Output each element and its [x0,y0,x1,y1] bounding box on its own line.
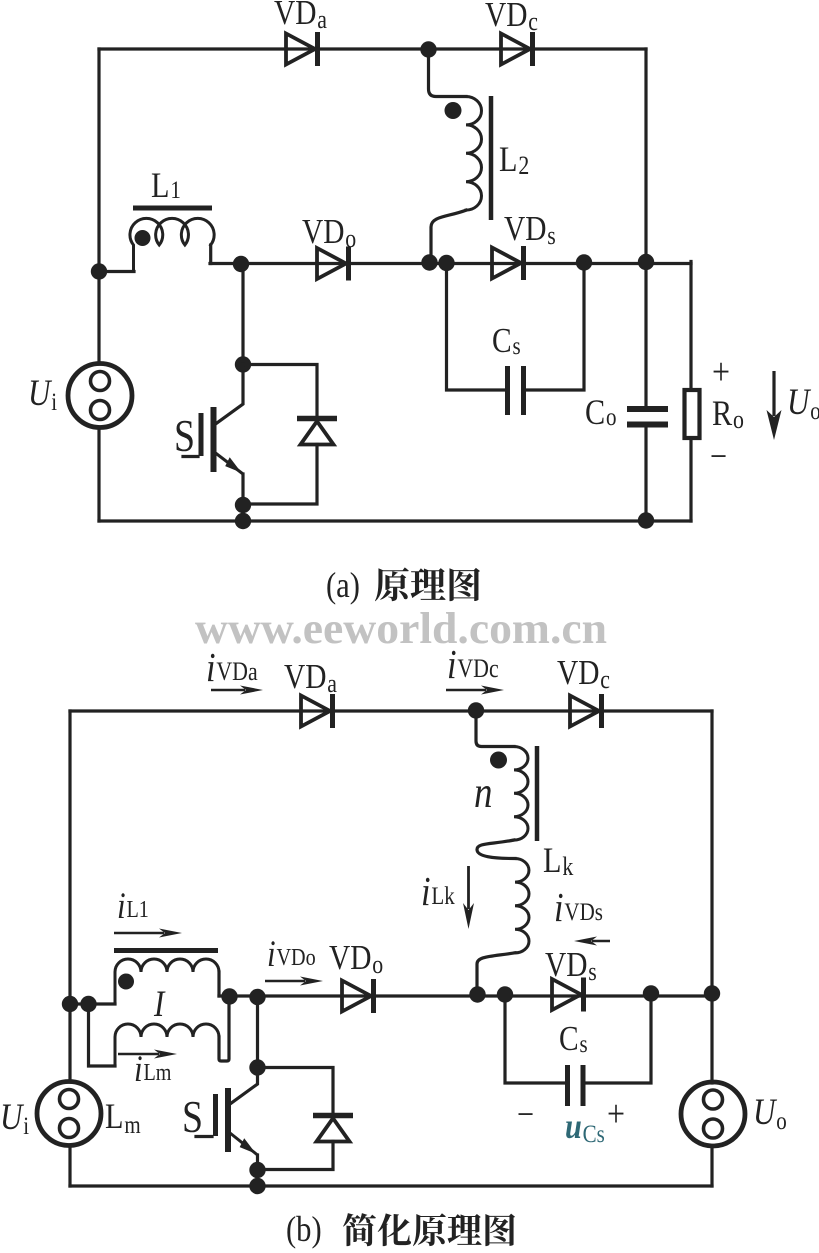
label iVDs [554,885,603,930]
arrow iVDs leftward [574,937,610,946]
node: dot middle rail L2 tap [421,254,437,270]
winding polarity dot of L1 [135,230,151,246]
wire: circuit (a) middle rail [210,262,691,265]
wire: antiparallel diode branch top (a) [243,365,317,417]
label Ro [712,394,744,435]
arrow iVDa [211,686,263,695]
label Ui (b) [0,1098,29,1140]
node: dot switch branch tap (b) [249,989,265,1005]
label VDo (b) [329,938,383,980]
svg-text:+: + [607,1092,625,1134]
label VDa [274,0,327,34]
wire: Lm lower right drop jog [219,997,229,1062]
label Cs [492,321,521,360]
label iLk [421,869,455,914]
wire: circuit (a) left rail upper [97,49,100,364]
label + of uCs [607,1092,625,1134]
wire: circuit (a) bottom rail [99,519,691,522]
diode VDs [492,246,524,280]
label S (b) [182,1092,203,1142]
svg-text:Cs: Cs [492,321,521,360]
svg-text:iVDs: iVDs [554,885,603,930]
wire: circuit (b) left rail lower [68,1145,71,1186]
capacitor Cs plates [508,366,524,415]
wire: antiparallel diode branch bottom (b) [258,1142,334,1170]
svg-text:VDa: VDa [274,0,327,34]
wire: circuit (b) left rail upper [68,711,71,1082]
wire: switch collector lead (b) [256,997,259,1067]
inductor Lm lower winding [115,1024,219,1066]
wire: L1 left connection jog [99,270,134,273]
label Cs (b) [559,1019,588,1058]
wire: circuit (a) right rail lower [644,427,647,521]
node: dot diode branch tap (a) [235,356,251,372]
winding polarity dot of Lm upper [118,974,134,990]
node: dot left rail mid (b) [62,996,78,1012]
svg-text:S: S [174,411,195,461]
transistor S gate bar (a) [199,413,204,456]
wire: emitter lead (a) [241,474,244,505]
svg-text:Uo: Uo [787,383,819,425]
winding polarity dot of L2 [445,102,462,119]
diode antiparallel of S (a) [297,419,337,445]
caption (b) chinese 简化原理图 [343,1213,515,1246]
label uCs teal [565,1107,605,1148]
inductor L1 winding [130,218,214,271]
svg-text:(b): (b) [286,1210,322,1250]
svg-text:VDo: VDo [302,212,356,254]
transistor S emitter with arrow (a) [216,453,244,474]
core bar of L2 [489,96,494,220]
svg-text:Co: Co [585,393,617,433]
svg-text:VDa: VDa [284,657,337,699]
wire: circuit (a) right rail upper [644,49,647,406]
label Uo (b) [753,1093,787,1135]
node: dot bottom rail right (a) [638,512,654,528]
inductor L2 winding [466,97,482,211]
node: dot L1 right junction [233,256,249,272]
inductor n winding (b) [514,747,528,841]
label S (a) [174,411,195,461]
label VDo [302,212,356,254]
label Ui (a) [28,374,57,416]
wire: Lm upper right drop [217,972,220,996]
label I turns [153,985,166,1025]
svg-text:Lm: Lm [105,1097,141,1139]
core overline of L1 [133,206,212,211]
label Co [585,393,617,433]
capacitor Cs plates (b) [568,1065,584,1106]
voltage source Uo (b) [681,1082,745,1146]
resistor Ro [685,390,700,438]
arrow iLm [118,1050,177,1059]
arrow iVDo [265,977,323,986]
wire: Lk bottom connection [477,953,515,994]
node: dot middle rail right rail junction [638,254,654,270]
node: dot Cs left tap (b) [497,986,513,1002]
svg-text:VDs: VDs [504,209,556,251]
arrow iLk downward [463,866,474,929]
wire: circuit (a) left rail lower [97,427,100,521]
wire: circuit (b) right rail lower [710,1146,713,1186]
label VDa (b) [284,657,337,699]
node: dot left rail mid (a) [91,263,107,279]
svg-text:L2: L2 [499,140,529,181]
node: dot Lm top right end [221,988,237,1004]
label L2 [499,140,529,181]
inductor Lk winding (b) [515,859,529,953]
svg-text:VDo: VDo [329,938,383,980]
wire: Cs loop bottom+right [526,263,584,390]
label iVDo [267,935,316,975]
node: dot Lk bottom junction [469,986,485,1002]
diode VDc [501,32,533,66]
svg-text:Ui: Ui [0,1098,29,1140]
label iL1 [117,887,149,927]
svg-text:Lk: Lk [543,841,573,882]
winding polarity dot of n [490,752,507,769]
node: dot top rail tap for n (b) [468,702,484,718]
svg-text:iVDo: iVDo [267,935,316,975]
wire: Lm lower winding left connection [89,1004,116,1066]
label iVDa [206,645,258,690]
svg-text:uCs: uCs [565,1107,605,1148]
node: dot emitter junction (a) [235,497,251,513]
core bar of transformer (b) [535,746,540,841]
diode VDo [317,247,349,281]
svg-text:−: − [517,1095,534,1135]
core overline of Lm [114,948,218,953]
svg-text:www.eeworld.com.cn: www.eeworld.com.cn [195,604,607,653]
node: dot emitter junction (b) [249,1162,265,1178]
arrow iVDc [446,686,504,695]
wire: Cs loop left+bottom [447,263,506,390]
wire: L1 right drop [209,245,212,264]
svg-text:n: n [474,768,492,817]
wire: collector lead lower (b) [230,1068,258,1105]
svg-text:S: S [182,1092,203,1142]
wire: Ro bottom lead [689,440,692,521]
node: dot middle rail right junction (b) [704,985,720,1001]
svg-text:−: − [710,437,727,477]
svg-text:Cs: Cs [559,1019,588,1058]
node: dot Cs right tap (b) [643,985,659,1001]
node: dot diode branch tap (b) [249,1059,265,1075]
wire: circuit (b) middle rail [219,994,712,997]
svg-text:iLk: iLk [421,869,455,914]
svg-text:(a): (a) [326,566,360,606]
wire: antiparallel diode branch top (b) [258,1068,334,1114]
label VDc [485,0,538,36]
svg-text:+: + [712,350,730,392]
node: dot bottom rail below switch (b) [249,1178,265,1194]
svg-text:I: I [153,985,166,1025]
node: junction dot top rail tap for L2 [420,41,436,57]
wire: circuit (b) middle rail left segment [70,1002,115,1005]
wire: circuit (a) middle rail to Ro corner [689,262,692,389]
node: dot bottom rail below switch (a) [235,513,251,529]
voltage source Ui (b) [37,1082,101,1146]
label L1 [151,166,181,206]
watermark www.eeworld.com.cn [195,604,607,653]
label − (a) [710,437,727,477]
arrow Uo output voltage (a) [767,371,782,440]
wire: Cs (b) left leg [505,995,564,1084]
wire: gate lead (b) [196,1135,212,1138]
wire: switch collector lead from middle rail [241,264,244,365]
wire: jog between n and Lk [477,840,515,859]
label iVDc [447,642,499,687]
label iLm [134,1050,171,1090]
svg-text:VDc: VDc [485,0,538,36]
diode VDa (b) [301,694,333,728]
svg-text:Uo: Uo [753,1093,787,1135]
label VDs (b) [545,945,597,987]
caption (a) latin part [326,566,360,606]
svg-text:Ro: Ro [712,394,744,435]
wire: circuit (a) top rail [99,47,646,50]
wire: circuit (b) bottom rail [70,1184,712,1187]
node: dot Lm lower winding tap [80,996,96,1012]
caption (a) chinese 原理图 [375,567,480,601]
wire: L2 bottom connection [431,210,466,262]
label VDc (b) [557,653,610,695]
transistor S (IGBT) main bar (b) [225,1088,231,1152]
diode antiparallel of S (b) [313,1116,353,1142]
transistor S gate bar (b) [213,1094,218,1136]
arrow iL1 [114,929,182,938]
svg-text:L1: L1 [151,166,181,206]
wire: gate lead (a) [183,455,198,458]
label Lm [105,1097,141,1139]
node: dot middle rail Cs left tap [438,255,454,271]
wire: Cs (b) right leg [586,995,651,1084]
svg-text:Ui: Ui [28,374,57,416]
node: dot middle rail Cs right tap [576,254,592,270]
voltage source Ui (a) [68,364,132,428]
wire: circuit (b) right rail upper [710,711,713,1083]
diode VDo (b) [342,979,374,1013]
wire: antiparallel diode branch bottom (a) [243,445,317,505]
wire: collector lead lower [216,365,244,425]
label VDs [504,209,556,251]
capacitor Co plates [627,409,668,425]
wire: circuit (b) top rail [70,709,712,712]
label + (a) [712,350,730,392]
label − of uCs [517,1095,534,1135]
label Uo (a) [787,383,819,425]
transistor S (IGBT) main bar (a) [211,407,217,472]
diode VDc (b) [570,694,602,728]
diode VDs diode (b) [552,978,584,1012]
wire: n winding top connection [476,711,514,747]
diode VDa [286,32,318,66]
inductor Lm upper winding [115,959,219,1004]
transistor S emitter with arrow (b) [230,1133,258,1155]
wire: L2 top connection [429,50,467,97]
svg-text:VDc: VDc [557,653,610,695]
label n [474,768,492,817]
caption (b) latin part [286,1210,322,1250]
svg-text:iL1: iL1 [117,887,149,927]
wire: emitter lead (b) [256,1155,259,1170]
label Lk [543,841,573,882]
